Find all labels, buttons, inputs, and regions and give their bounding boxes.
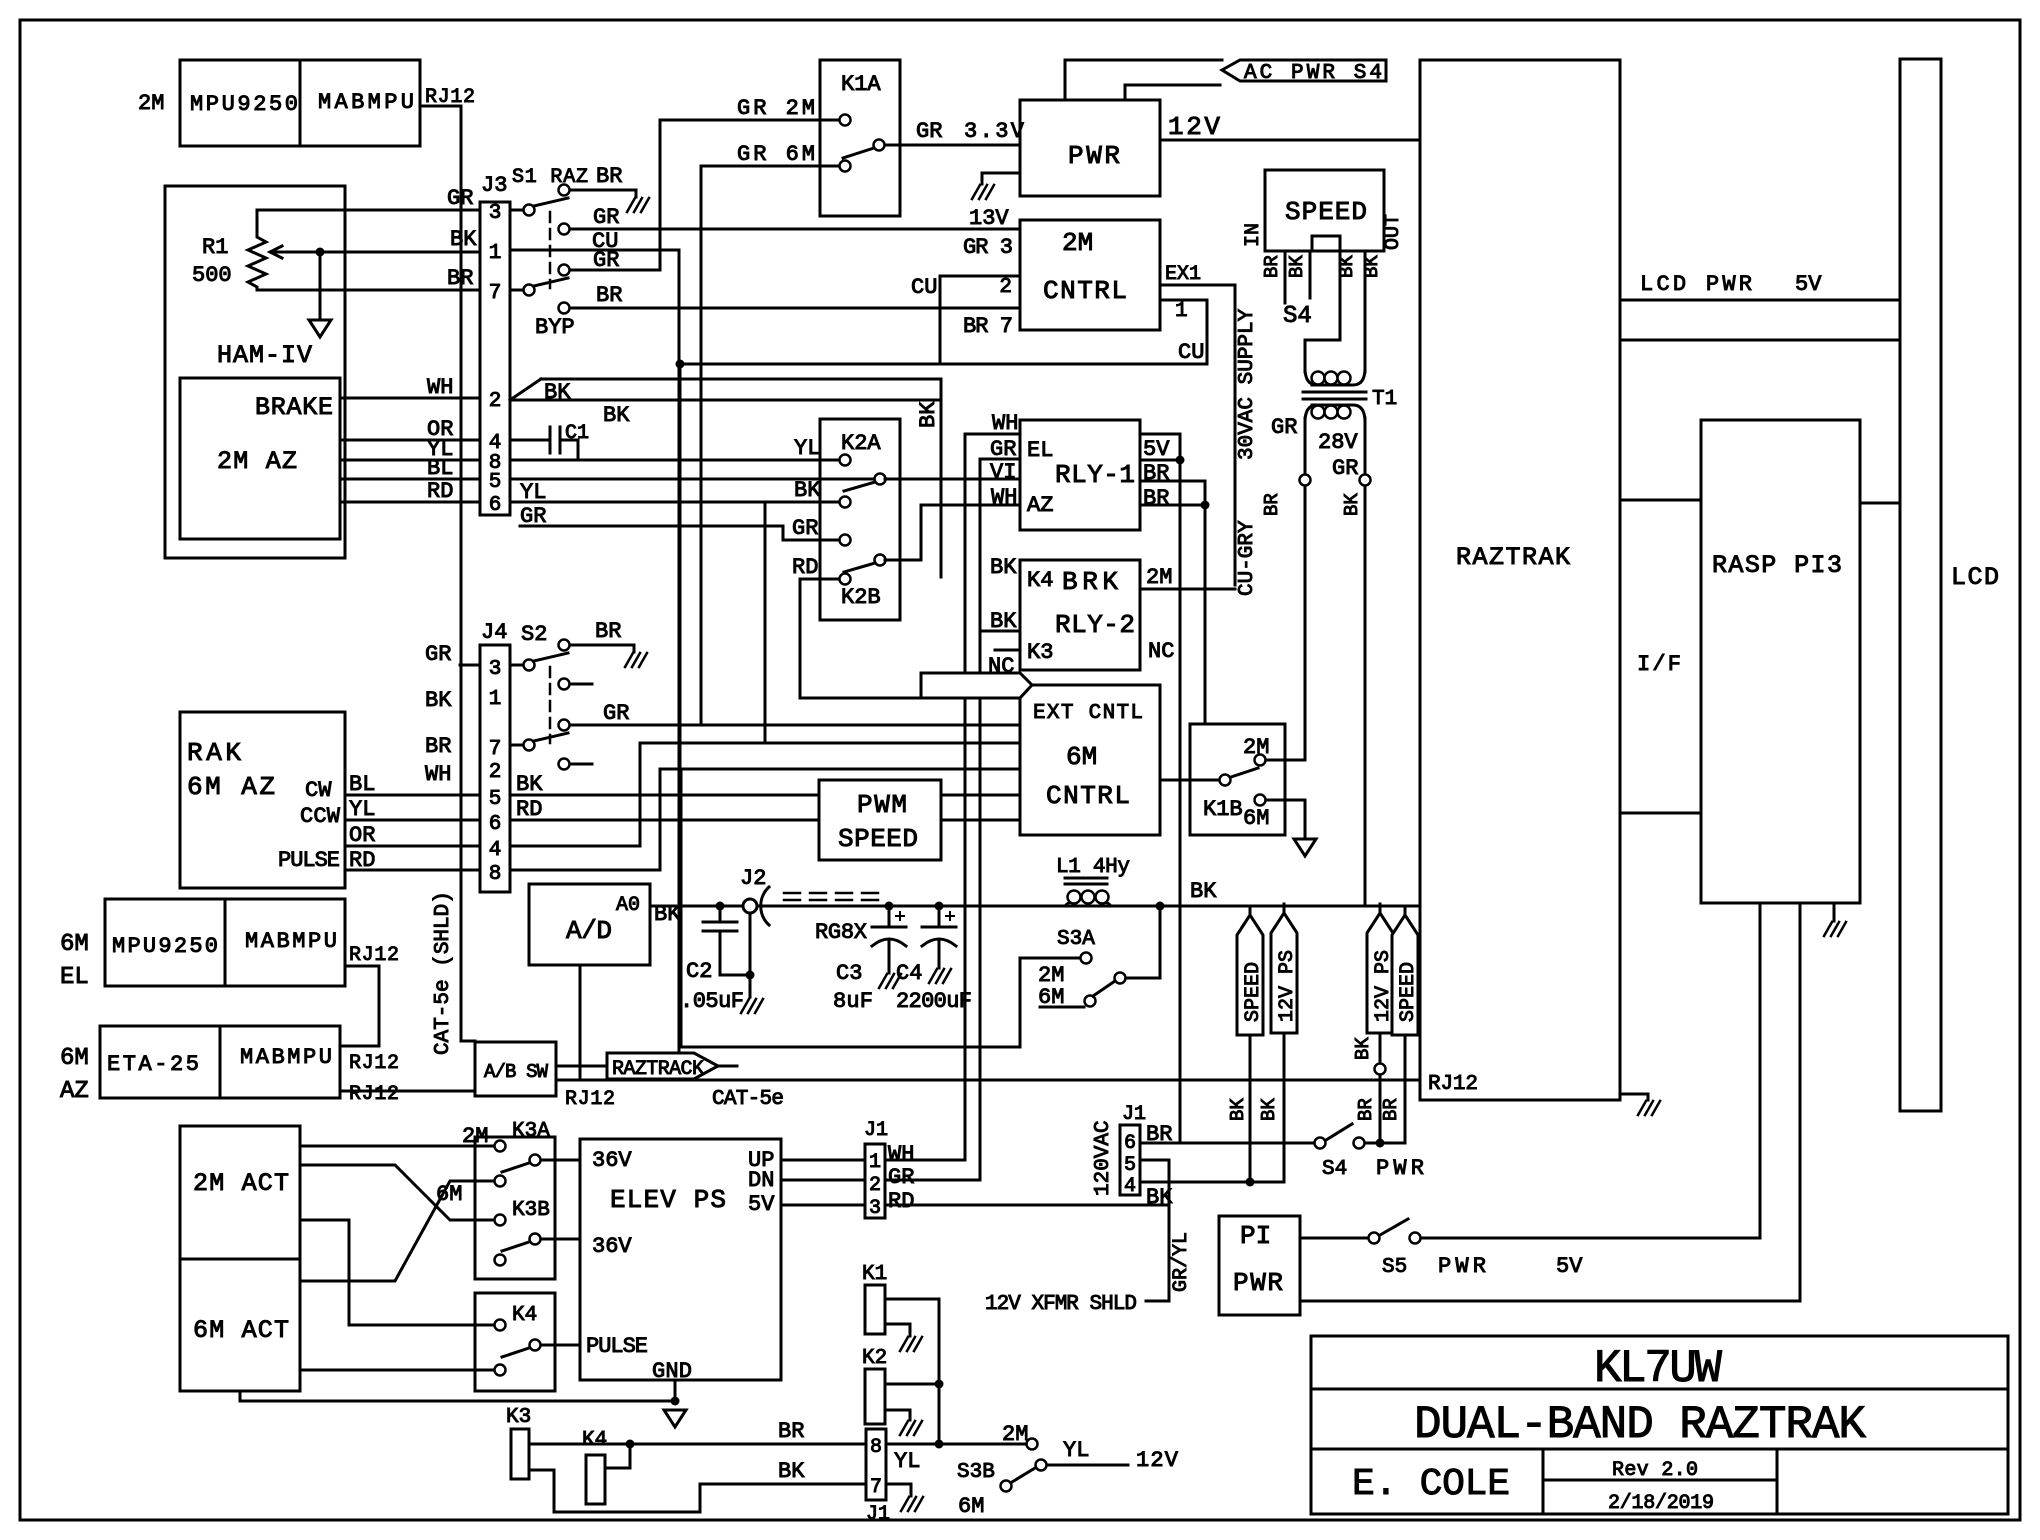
wire A/B to RAZTRACK flag [556,1065,607,1068]
flag AC PWR S4 [1222,60,1386,81]
K2B contact RD [840,574,851,585]
box 6M ACT [180,1259,300,1391]
S3A pole [1115,973,1126,984]
wire PWR AC 2 [1125,85,1220,100]
svg-text:J4: J4 [481,620,507,645]
svg-text:GR/YL: GR/YL [1170,1232,1193,1292]
svg-text:WH: WH [991,485,1017,510]
S1 contact GR [559,224,570,235]
wire pin6 to K2A BK contact [510,501,839,504]
svg-text:GR 2M: GR 2M [737,96,815,121]
svg-text:RASP PI3: RASP PI3 [1712,551,1842,580]
svg-text:36V: 36V [592,1234,632,1259]
wire vert GR 2M [659,120,662,270]
wire J2 pin down [749,913,752,997]
box A/B SW [475,1042,556,1096]
K1A contact 6M [840,161,851,172]
svg-text:BK: BK [1341,493,1363,516]
wire RASP-LCD [1860,502,1900,505]
svg-text:BK: BK [516,772,543,797]
wire BL [345,794,480,797]
svg-text:GR 3: GR 3 [963,235,1013,260]
svg-text:MPU9250: MPU9250 [190,92,298,117]
wire RASP 5V down [1759,903,1762,1238]
svg-text:BR: BR [1261,255,1283,278]
capacitor C3 (pol) [888,906,891,927]
capacitor C2 [719,906,722,922]
svg-text:5: 5 [489,471,502,494]
svg-text:C3: C3 [836,961,862,986]
svg-text:S3A: S3A [1057,928,1095,951]
ground [972,185,994,199]
wire 5V [781,1204,865,1207]
svg-text:2: 2 [999,276,1012,299]
K1B pole [1220,775,1231,786]
svg-text:WH: WH [888,1142,914,1167]
junction [1246,1178,1255,1187]
svg-text:OUT: OUT [1382,214,1405,250]
svg-text:BK: BK [778,1459,805,1484]
S1 contact BR [559,185,570,196]
svg-text:GR: GR [593,205,619,230]
wire K2 to vert [885,1383,939,1386]
svg-text:BR 7: BR 7 [963,314,1013,339]
box 2M ACT [180,1126,300,1259]
svg-text:5V: 5V [748,1192,775,1217]
svg-text:S4: S4 [1283,303,1312,330]
wire BYP BR to 2M CNTRL pin7 [570,307,1020,310]
svg-text:R1: R1 [202,235,228,260]
box LCD connector [1900,59,1941,1111]
junction [1201,501,1210,510]
svg-text:BR: BR [596,164,622,189]
svg-text:GR: GR [447,186,473,211]
box PWR [1020,100,1160,196]
svg-text:S4: S4 [1322,1158,1347,1181]
svg-text:A/D: A/D [566,916,612,946]
svg-text:EL: EL [60,964,89,991]
svg-text:2M AZ: 2M AZ [217,447,297,476]
tag 12V PS [1283,904,1286,913]
wire DN [781,1179,865,1182]
RLY-1 BR stub [1140,459,1180,462]
svg-text:BK: BK [794,478,821,503]
svg-text:1: 1 [869,1151,881,1174]
svg-text:6M: 6M [436,1182,462,1207]
tag SPEED b [1404,906,1407,915]
wire J4 pin6 RD to PWM [510,819,819,822]
wire BR down [1304,486,1307,760]
svg-text:6M: 6M [1066,742,1097,772]
wire GR to 6M CNTRL [570,724,1020,727]
wire pin8 to 2M [886,1443,1026,1446]
wire PIPWR bottom [1300,1300,1800,1303]
svg-text:BR: BR [596,283,622,308]
svg-text:C4: C4 [896,961,922,986]
wire pin8 YL to K2A [510,459,839,462]
svg-text:CAT-5e (SHLD): CAT-5e (SHLD) [432,891,455,1055]
wire pin4 BK [1140,1181,1284,1184]
wire S4 out [1365,1142,1405,1145]
svg-text:GR: GR [425,642,451,667]
wire vert GR6M to S2 [700,166,703,725]
wire pot top GR to J3 pin3 [257,209,480,212]
K3A contact a [495,1141,506,1152]
wire 12VPSb down [1379,1035,1382,1063]
wire CAT-5e bus [556,1079,1420,1082]
junction [626,1440,635,1449]
svg-text:SPEED: SPEED [1242,962,1265,1022]
svg-text:K3A: K3A [512,1120,550,1143]
svg-text:1: 1 [1175,300,1188,323]
svg-text:RAZTRACK: RAZTRACK [612,1058,704,1081]
svg-text:DUAL-BAND RAZTRAK: DUAL-BAND RAZTRAK [1414,1399,1866,1451]
relay K1A box [820,60,900,216]
svg-text:HAM-IV: HAM-IV [217,341,312,370]
K2A contact YL [840,455,851,466]
svg-text:SPEED: SPEED [1397,962,1420,1022]
box 2M MPU9250/MABMPU [180,60,420,146]
resistor R1 (pot) body [248,210,266,290]
wire RJ12 to ETA [340,966,379,1046]
svg-text:BK: BK [990,555,1017,580]
ground [901,1497,923,1511]
svg-text:BK: BK [603,403,630,428]
junction [1376,1139,1385,1148]
wire S5 to RASP [1421,1237,1760,1240]
K3B contact b [495,1255,506,1266]
K2B pole [875,555,886,566]
wire PWM out1 [941,794,1020,797]
RLY-1 BR3 stub [1140,504,1205,507]
wire pin2 CU [940,276,1020,364]
svg-text:VI: VI [990,460,1016,485]
switch S4 [1315,1138,1326,1149]
svg-text:BR: BR [1355,1098,1377,1121]
RASP gnd [1833,903,1836,921]
T1 terminal GR [1300,475,1311,486]
svg-text:12V PS: 12V PS [1276,950,1299,1022]
svg-text:K1A: K1A [841,72,881,97]
wire GR up [885,1179,980,1182]
svg-text:ELEV PS: ELEV PS [610,1185,726,1215]
wire K3 BR to J1 pin8 [529,1443,866,1446]
svg-text:GR: GR [916,119,942,144]
svg-text:8: 8 [489,863,502,886]
wire WH up [885,1159,965,1162]
junction [1176,456,1185,465]
svg-text:6M: 6M [60,931,89,958]
wire BK vert [940,379,943,577]
svg-text:4: 4 [1124,1175,1136,1198]
S1 contact GR2 [559,265,570,276]
svg-text:YL: YL [894,1449,920,1474]
svg-text:L1 4Hy: L1 4Hy [1056,856,1130,879]
svg-text:AC PWR S4: AC PWR S4 [1244,62,1382,85]
title block [1311,1336,2008,1514]
wire RJ12 to A/B SW [340,1090,475,1093]
wire 2M to CU-GRY [1140,588,1235,591]
ground [900,1337,922,1351]
wire to ground [319,252,322,320]
S2 contact BR [559,640,570,651]
SPEED wiper tab [1312,236,1340,251]
svg-text:RJ12: RJ12 [349,1052,399,1075]
ground arrow [1294,839,1316,856]
svg-text:5V: 5V [1143,437,1170,462]
wire GR to 2M vert [570,269,660,272]
svg-text:SPEED: SPEED [1285,197,1367,227]
wire LCD PWR 2 [1620,339,1900,342]
svg-text:PULSE: PULSE [278,848,340,873]
svg-text:BK: BK [916,401,941,428]
svg-text:2M: 2M [1002,1422,1028,1447]
junction [716,902,725,911]
svg-text:YL: YL [349,797,375,822]
terminal [1375,1064,1386,1075]
ground [625,653,647,667]
wire LCD PWR [1620,299,1900,302]
wire PWM out2 [941,819,1020,822]
junction [676,360,685,369]
svg-text:J3: J3 [481,173,507,198]
relay K4 coil box [586,1455,605,1504]
svg-text:12V XFMR SHLD: 12V XFMR SHLD [985,1293,1137,1316]
connector J2 [761,887,769,925]
svg-text:6: 6 [489,494,502,517]
svg-text:K2: K2 [862,1347,887,1370]
svg-text:PWR: PWR [1233,1268,1283,1298]
RAZTRAK gnd [1620,1094,1648,1100]
wire OR [345,845,480,848]
svg-text:AZ: AZ [1027,493,1053,518]
svg-text:NC: NC [1148,639,1174,664]
svg-text:GR: GR [1271,415,1297,440]
relay K3 coil box [511,1429,529,1479]
wire RD [885,1204,1169,1207]
S3A contact 2M [1081,953,1092,964]
S2 mech link dashed [549,667,552,743]
relay K1 coil box [865,1285,885,1334]
svg-text:PWM: PWM [857,790,907,820]
wire 2M contact [1266,759,1305,762]
svg-text:BR: BR [1143,486,1169,511]
wire K1 gnd [885,1324,910,1336]
junction [1156,902,1165,911]
svg-text:K3B: K3B [512,1199,550,1222]
S3B contact 2M [1027,1439,1038,1450]
svg-text:BK: BK [1286,255,1308,278]
transformer T1 secondary [1305,405,1365,422]
ground arrow [664,1410,686,1427]
svg-text:PULSE: PULSE [586,1334,648,1359]
relay K4 box [475,1293,555,1391]
wire K2B pole to RLY-1 AZ [885,505,1020,560]
wire UP [781,1159,865,1162]
wire J4 pin8 [510,769,1020,870]
box PWM SPEED [819,780,941,860]
wire PWR AC 1 [1065,60,1222,100]
K3B pole [530,1234,541,1245]
wire pin6 to S4 [1140,1142,1314,1145]
svg-text:PWR: PWR [1376,1156,1424,1181]
svg-text:GR: GR [888,1165,914,1190]
svg-text:2/18/2019: 2/18/2019 [1608,1492,1714,1515]
L1 core [1065,877,1107,880]
wire GR 6M [701,165,839,168]
ground [929,969,951,983]
svg-text:YL: YL [794,436,820,461]
svg-text:WH: WH [425,762,451,787]
wire 2M ACT third [300,1220,494,1325]
wire C2 to gnd join [720,974,750,977]
wire RD [345,869,480,872]
K2A contact GR [840,535,851,546]
box ELEV PS [580,1139,781,1380]
svg-text:7: 7 [489,282,502,305]
wire pin4 to C1 [510,439,550,442]
svg-text:GND: GND [652,1359,692,1384]
wire GND down [674,1380,677,1401]
svg-text:CU: CU [1178,340,1204,365]
svg-text:K3: K3 [1027,640,1053,665]
svg-text:3.3V: 3.3V [964,119,1025,144]
svg-text:AZ: AZ [60,1078,89,1105]
transformer T1 primary [1305,368,1365,385]
relay K1B box [1190,724,1285,835]
svg-text:12V: 12V [1168,112,1220,142]
wire K4 link [605,1444,630,1468]
wire 12V to RAZTRAK [1160,139,1420,142]
svg-text:K4: K4 [1027,568,1053,593]
box HAM-IV [165,186,345,558]
svg-text:GR: GR [1332,456,1358,481]
S2 stub contact 2 [559,759,570,770]
svg-text:J2: J2 [740,866,766,891]
RLY-1 BR2 stub [1140,480,1205,483]
svg-text:PI: PI [1240,1221,1271,1251]
box RLY-1 [1020,420,1140,530]
svg-text:GR: GR [792,516,818,541]
svg-text:6: 6 [489,813,502,836]
wire BR to gnd [570,189,636,192]
wire EL WH [965,434,1020,1160]
svg-text:CAT-5e: CAT-5e [712,1088,784,1111]
wire tag 12VPS down [1283,1033,1286,1182]
svg-text:BK: BK [1258,1098,1280,1121]
svg-text:K3: K3 [506,1406,531,1429]
tag SPEED [1249,906,1252,915]
svg-text:2M: 2M [138,91,164,116]
ground [879,974,901,988]
flag RAZTRACK [607,1053,718,1079]
K3A contact b [495,1176,506,1187]
wire main BK bus [650,905,1420,908]
wire RD to EXT CNTL flag [800,579,921,698]
svg-text:LCD PWR: LCD PWR [1640,272,1752,297]
K4 contact b [495,1365,506,1376]
wire GR 2M [660,119,839,122]
svg-text:7: 7 [489,738,502,761]
svg-text:YL: YL [1063,1438,1089,1463]
svg-text:BR: BR [778,1419,804,1444]
S3A contact 6M [1085,996,1096,1007]
svg-text:CU-GRY: CU-GRY [1236,520,1259,596]
svg-text:BR: BR [425,734,451,759]
connector J4 [480,645,510,892]
svg-text:EX1: EX1 [1165,263,1201,286]
wire T1 sec left [1304,418,1307,474]
K1B contact 2M [1255,755,1266,766]
wire J4 pin5 BK to PWM [510,794,819,797]
S1 mech link dashed [549,212,552,288]
relay K2A/K2B box [820,419,900,620]
svg-text:BL: BL [427,456,453,481]
svg-text:T1: T1 [1372,388,1397,411]
wire tab down to T1 [1305,251,1340,372]
junction [935,1380,944,1389]
svg-text:BK: BK [425,688,452,713]
wire RJ12 from MABMPU [420,106,475,1041]
K1A common [874,140,885,151]
wire GR jog [520,526,839,540]
box SPEED [1265,170,1384,251]
flag EXT CNTL [921,673,1032,698]
svg-text:120VAC: 120VAC [1092,1120,1115,1196]
wire BK long [510,399,941,402]
svg-text:BYP: BYP [535,315,575,340]
svg-text:2M: 2M [1062,228,1093,258]
svg-text:BK: BK [1361,255,1383,278]
svg-text:J1: J1 [864,1119,888,1142]
wire CU J3 pin1 down [510,250,679,1080]
svg-text:J1: J1 [866,1503,890,1526]
svg-text:CU: CU [911,275,937,300]
wire RJ12 CAT5 bus [556,1079,1420,1082]
svg-text:IN: IN [1242,223,1265,247]
svg-text:Rev 2.0: Rev 2.0 [1612,1459,1698,1482]
svg-text:S3B: S3B [957,1461,995,1484]
svg-text:CNTRL: CNTRL [1046,781,1130,811]
wire PI to S5 [1300,1237,1368,1240]
svg-text:3: 3 [489,202,502,225]
wire K1A common to PWR [885,144,1020,147]
wire RASP PIPWR down [1799,903,1802,1301]
wire C1 to pin8 wire [560,440,578,460]
wire BRAKE YL [340,459,480,462]
wire BK contact down [764,502,767,743]
wire K3 BK path [529,1470,866,1512]
wire 2M loop [681,769,1080,1047]
connector J1 120VAC [1120,1125,1140,1195]
svg-text:BK: BK [450,227,477,252]
svg-text:36V: 36V [592,1148,632,1173]
K4 contact a [495,1320,506,1331]
S2 contact GR [559,720,570,731]
svg-text:.05uF: .05uF [680,989,744,1014]
wire BR vert to K1B [1204,481,1207,724]
svg-text:6M: 6M [1243,806,1269,831]
svg-text:WH: WH [992,411,1018,436]
tag 12V PS b [1379,904,1382,913]
svg-text:28V: 28V [1318,430,1358,455]
ground [1638,1101,1660,1115]
wire BR gnd [570,644,634,647]
inductor L1 [1068,891,1081,904]
wire BK2 stub [980,630,1020,633]
svg-text:RJ12: RJ12 [1428,1073,1478,1096]
S3B contact 6M [1001,1481,1012,1492]
